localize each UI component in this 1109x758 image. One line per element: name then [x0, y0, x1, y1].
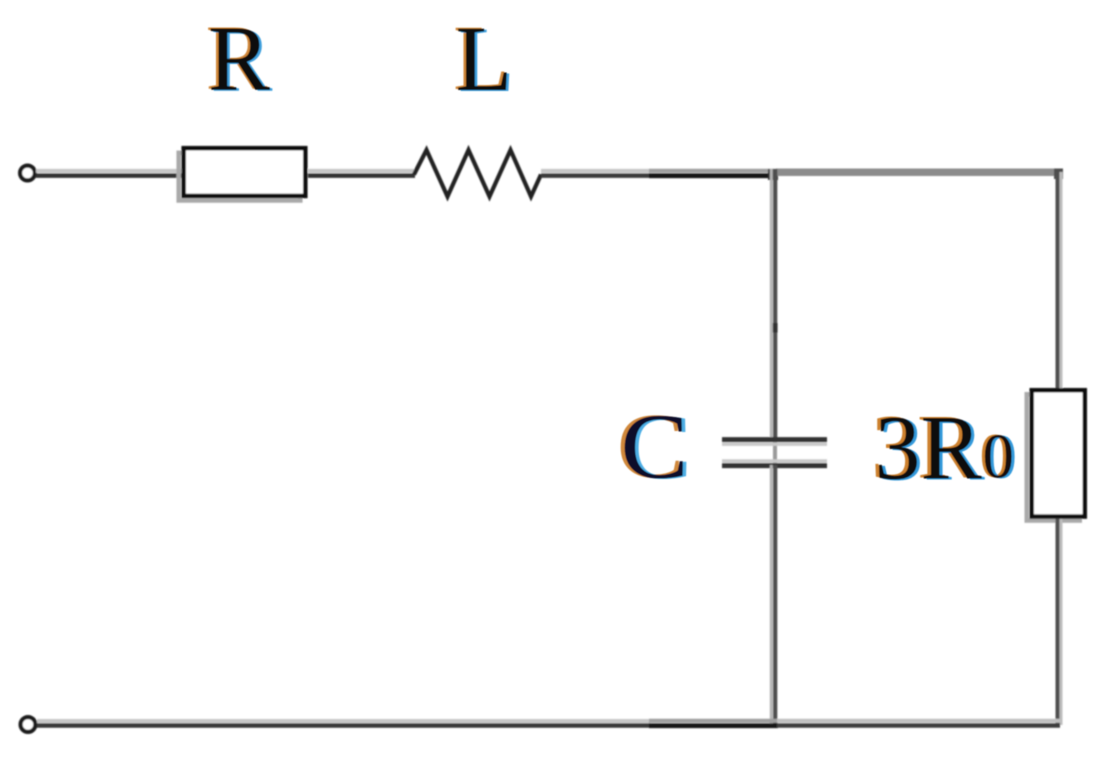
- terminal T1 (top-left input): [20, 166, 35, 181]
- wire bottom right segment (capacitor branch to node D): [777, 721, 1060, 726]
- wire dark overlap segment to node A: [649, 171, 778, 176]
- label C: [617, 395, 693, 499]
- wire bottom-left segment (T2 to node C): [37, 721, 650, 726]
- label 3R0: [871, 396, 1017, 500]
- terminal T2 (bottom-left): [21, 717, 36, 732]
- wire capacitor branch lower (C down to bottom wire): [771, 465, 775, 725]
- inductor L (zigzag): [414, 150, 541, 197]
- wire top-left segment (T1 to R): [36, 171, 184, 176]
- svg-text:L: L: [456, 8, 513, 111]
- svg-text:3R: 3R: [875, 397, 983, 499]
- wire right branch lower (3R0 down to bottom wire): [1058, 519, 1062, 725]
- resistor R (box): [179, 148, 306, 200]
- svg-text:R: R: [208, 8, 270, 111]
- capacitor C top plate: [722, 440, 827, 445]
- label R: [206, 7, 273, 112]
- wire node A to node B (top right, gray): [776, 169, 1060, 177]
- svg-text:0: 0: [983, 422, 1015, 492]
- node A junction: [768, 169, 778, 180]
- node B corner (top right): [1054, 169, 1063, 180]
- wire L to node A: [541, 171, 650, 176]
- wire capacitor branch upper (node A down to C): [771, 169, 775, 440]
- wire R to L: [308, 171, 415, 176]
- label L: [453, 7, 515, 112]
- wire bottom dark overlap segment (node C to capacitor branch): [649, 721, 778, 726]
- wire between capacitor plates: [773, 441, 777, 464]
- resistor 3R0 (box): [1027, 390, 1085, 520]
- svg-text:C: C: [621, 396, 689, 499]
- wire right branch upper (node B down to 3R0): [1058, 172, 1062, 389]
- capacitor C bottom plate: [722, 461, 827, 466]
- junction blip on capacitor branch: [773, 323, 778, 333]
